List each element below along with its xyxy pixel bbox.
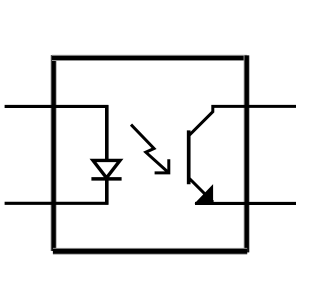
wire pin 2 (cathode, bottom-left) xyxy=(5,202,109,205)
LED triangle (anode) xyxy=(93,160,120,178)
light arrow zigzag xyxy=(131,125,169,173)
optocoupler body left edge xyxy=(50,55,56,251)
wire cathode vertical xyxy=(105,179,109,205)
phototransistor collector wire and pin 4 (top-right) xyxy=(189,106,296,135)
phototransistor emitter arrowhead xyxy=(195,184,214,203)
optocoupler body right edge xyxy=(244,55,250,252)
light arrow head xyxy=(155,159,169,173)
wire pin 3 (emitter, bottom-right) xyxy=(195,202,296,205)
LED cathode bar xyxy=(91,177,121,181)
phototransistor emitter wire xyxy=(189,178,213,202)
optocoupler body top edge xyxy=(52,55,247,61)
phototransistor base bar xyxy=(187,130,191,184)
wire pin 1 (anode, top-left) xyxy=(5,105,109,108)
optocoupler body bottom edge xyxy=(53,248,247,255)
wire anode vertical xyxy=(105,105,109,162)
